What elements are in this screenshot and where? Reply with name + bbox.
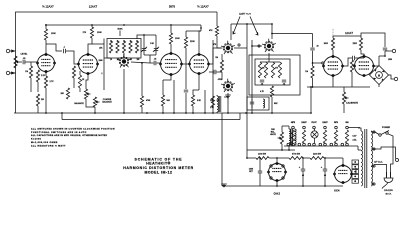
heater coil 5 bbox=[334, 130, 337, 143]
transformer taps bbox=[371, 131, 375, 185]
svg-text:117 V.A.C.: 117 V.A.C. bbox=[374, 161, 383, 164]
svg-text:1000 5W: 1000 5W bbox=[258, 154, 266, 156]
junction range top dots bbox=[110, 40, 138, 42]
label 2200 5W bbox=[313, 154, 321, 156]
wire R9 bottom stub bbox=[91, 38, 93, 40]
label 6X4 bbox=[334, 189, 340, 193]
wire top bus B+ bbox=[16, 11, 217, 13]
svg-text:40: 40 bbox=[302, 175, 304, 177]
svg-text:105-125V: 105-125V bbox=[384, 190, 393, 192]
resistor R9 100K plate V1B bbox=[83, 27, 103, 38]
wire R12 top bbox=[162, 80, 164, 95]
wire balance bottom bbox=[86, 99, 95, 107]
wire bottom bus second bbox=[62, 119, 240, 121]
label 5879 bbox=[169, 5, 176, 9]
wire bus2 end down bbox=[200, 25, 202, 31]
svg-text:6BT8: 6BT8 bbox=[291, 122, 295, 124]
resistor RR1 bbox=[109, 41, 112, 53]
rotary switch S1 frequency bbox=[117, 54, 131, 67]
junction dots supply bbox=[246, 157, 326, 187]
tube V1A bbox=[37, 53, 56, 72]
shield box outer bbox=[249, 55, 300, 95]
wire R14 to S2 bbox=[217, 36, 221, 48]
wire vertical 174 bbox=[173, 80, 175, 113]
svg-text:HEATHKIT®: HEATHKIT® bbox=[146, 162, 171, 166]
bridge rectifier D1-D4 bbox=[370, 66, 389, 85]
ground main bbox=[221, 184, 227, 187]
wire vertical 252 bbox=[251, 40, 253, 113]
label box 68K bbox=[274, 103, 278, 105]
wire S1 bottom down bbox=[123, 69, 125, 113]
label half 12AX7 second bbox=[197, 5, 209, 9]
svg-text:60 CY.: 60 CY. bbox=[386, 193, 392, 195]
wire trimmer top bus bbox=[137, 34, 156, 39]
input terminal J1 bbox=[6, 49, 15, 52]
wire OA2 top bbox=[276, 157, 278, 162]
svg-text:1M: 1M bbox=[305, 71, 308, 73]
wire V1A plate to C2 bbox=[46, 44, 62, 51]
arrow callout right bbox=[250, 17, 258, 36]
resistor R14 47K bbox=[209, 26, 219, 36]
svg-text:6X4: 6X4 bbox=[345, 121, 348, 124]
svg-text:POWER: POWER bbox=[382, 127, 391, 129]
capacitor in box bbox=[250, 99, 254, 108]
junction V1A plate node bbox=[45, 24, 47, 26]
wire T2 top bbox=[282, 126, 289, 132]
diode arrows in bridge bbox=[373, 69, 384, 81]
wire V4B out to bridge bbox=[374, 65, 380, 67]
capacitor C1 .05 bbox=[23, 58, 27, 64]
svg-text:100K: 100K bbox=[97, 32, 102, 34]
svg-text:ALL SWITCHES SHOWN IN COUNTER: ALL SWITCHES SHOWN IN COUNTER CLOCKWISE … bbox=[31, 127, 115, 130]
wire V2 cathode bbox=[163, 75, 171, 81]
label LEVEL bbox=[21, 54, 29, 56]
wire coarse balance to bus bbox=[94, 107, 96, 113]
svg-text:1M: 1M bbox=[25, 71, 28, 73]
transformer T1 primary bbox=[361, 131, 363, 186]
svg-text:2200 5W: 2200 5W bbox=[313, 154, 321, 156]
wire switch to plug bbox=[388, 134, 393, 172]
wire choke connections bbox=[216, 95, 218, 113]
svg-text:K=1000: K=1000 bbox=[31, 139, 42, 141]
heater terminals bottom row bbox=[287, 143, 348, 146]
wire S2 right to verticals bbox=[234, 47, 247, 49]
label 47K V3 bbox=[213, 44, 217, 46]
capacitor CN1 bbox=[260, 80, 264, 85]
label 22K choke bbox=[210, 100, 214, 102]
resistor R2 grid bbox=[36, 70, 45, 82]
resistor R10 plate 5879 bbox=[169, 33, 180, 44]
svg-text:MODEL IM-12: MODEL IM-12 bbox=[145, 170, 173, 174]
label 105-125V bbox=[384, 190, 393, 195]
terminal small A bbox=[238, 44, 260, 47]
wire S4 right arm bbox=[272, 33, 313, 35]
wire S3 down bbox=[227, 93, 229, 113]
capacitor C4 to 5879 grid bbox=[150, 61, 161, 65]
wire V1B cathode bbox=[86, 74, 88, 90]
svg-text:5879: 5879 bbox=[169, 5, 176, 9]
wire bus24 bbox=[231, 23, 273, 40]
resistor RN2 bbox=[264, 62, 267, 78]
svg-text:10: 10 bbox=[317, 46, 319, 48]
svg-text:12AX7: 12AX7 bbox=[345, 31, 353, 35]
capacitor C10 bbox=[258, 157, 262, 186]
wire RB1 left bbox=[247, 150, 256, 158]
wire V3 out right bbox=[209, 48, 223, 64]
resistor R21 470K bbox=[140, 62, 151, 113]
wire R10 to bus2 bbox=[170, 24, 172, 53]
wire V1B grid stub bbox=[74, 58, 79, 64]
wire RB chain bbox=[269, 157, 334, 159]
wire R3 to bottom bus bbox=[37, 106, 39, 113]
svg-text:LEVEL: LEVEL bbox=[21, 54, 29, 56]
label set box bbox=[249, 169, 254, 174]
wire V3 plate bbox=[199, 31, 201, 55]
wire V1A cathode down bbox=[45, 72, 47, 77]
wire heater bottom bus bbox=[284, 145, 358, 147]
svg-text:M=1,000,000 OHMS: M=1,000,000 OHMS bbox=[31, 142, 58, 144]
tube V4A bbox=[323, 55, 344, 76]
wire S4 to network bbox=[268, 53, 270, 62]
wire R1 bottom bbox=[30, 78, 32, 92]
wire V2 out bbox=[182, 63, 190, 65]
wire V3 cathode bbox=[198, 74, 200, 91]
wire S4 left bbox=[251, 45, 262, 47]
heater coil 3 bbox=[314, 129, 316, 143]
potentiometer BALANCE fine bbox=[84, 89, 90, 99]
wire C1 to V1A grid bbox=[25, 61, 38, 63]
svg-text:COARSE: COARSE bbox=[103, 98, 112, 101]
capacitor C11 electrolytic bbox=[299, 157, 305, 186]
wire bus2 bbox=[46, 24, 201, 26]
capacitor C7 bbox=[310, 46, 324, 65]
resistor R11 screen bbox=[184, 37, 195, 48]
wire vertical 222 long bbox=[221, 113, 223, 186]
svg-text:100K: 100K bbox=[175, 38, 180, 40]
resistor RN4 bbox=[278, 62, 281, 78]
svg-text:1500: 1500 bbox=[99, 60, 103, 62]
svg-text:12AX7: 12AX7 bbox=[89, 5, 98, 9]
resistor RR5 bbox=[135, 41, 138, 53]
title line 1 bbox=[135, 157, 183, 161]
terminal strip TS1 bbox=[352, 160, 359, 183]
wire R11 bottom bbox=[185, 48, 187, 89]
transformer T1 core bbox=[365, 129, 367, 188]
resistor R8 10K bbox=[60, 88, 69, 99]
trimmer capacitor CT2 bbox=[153, 35, 159, 55]
resistor RR2 bbox=[116, 41, 119, 53]
resistor RN3 bbox=[271, 62, 274, 78]
wire C2 to V1B bbox=[66, 51, 74, 58]
svg-text:½ 12AX7: ½ 12AX7 bbox=[42, 5, 54, 9]
rotary switch S4 bbox=[262, 39, 276, 52]
svg-text:.1: .1 bbox=[101, 73, 103, 75]
label METER BALANCE bbox=[270, 129, 276, 136]
wire V1A plate up bbox=[45, 40, 47, 55]
wire R6 down bbox=[73, 78, 75, 88]
svg-text:.01: .01 bbox=[261, 84, 264, 86]
range resistor box bbox=[107, 39, 141, 59]
label filter r1 bbox=[262, 68, 279, 70]
wire V4A cathode bbox=[332, 76, 334, 88]
resistor R7 bbox=[78, 75, 85, 88]
wire input top corner bbox=[15, 12, 18, 45]
wire heater top right bbox=[348, 127, 360, 129]
potentiometer LEVEL bbox=[14, 56, 20, 68]
heater coil 2 bbox=[302, 130, 305, 143]
wire vertical 205 bbox=[204, 90, 206, 113]
wire R2 bottom to bus bbox=[37, 82, 39, 92]
svg-text:220K: 220K bbox=[353, 43, 358, 45]
pilot lamp PL1 bbox=[311, 131, 318, 138]
wire R12 bottom bbox=[162, 106, 164, 113]
pin circles OA2 bbox=[270, 165, 284, 179]
svg-text:20: 20 bbox=[110, 59, 112, 61]
switch SW power bbox=[374, 131, 389, 137]
wire R7 top bbox=[79, 71, 81, 75]
svg-text:BAL-: BAL- bbox=[271, 131, 276, 134]
wire vertical 311 bbox=[299, 52, 301, 54]
wire second bus right corner bbox=[239, 113, 241, 120]
resistor RR4 bbox=[129, 41, 132, 53]
label BALANCE bbox=[74, 102, 84, 105]
svg-text:OA2: OA2 bbox=[274, 192, 281, 196]
output terminal right bottom bbox=[389, 75, 398, 81]
AC plug P1 bbox=[382, 172, 393, 189]
svg-text:40: 40 bbox=[324, 175, 326, 177]
arrow callout left bbox=[233, 17, 240, 35]
label freq values bbox=[110, 59, 139, 61]
wire R9 top to bus2 bbox=[91, 24, 93, 27]
svg-text:20K: 20K bbox=[137, 59, 140, 61]
wire S4 top to bus bbox=[271, 24, 273, 39]
inductor in box bbox=[263, 99, 265, 108]
label 6.3V bbox=[353, 136, 358, 142]
wire top bus corner down bbox=[216, 12, 218, 26]
heater coil 4 bbox=[323, 130, 326, 143]
wire secondary leads bbox=[358, 149, 361, 151]
capacitor C2 coupling bbox=[63, 47, 66, 54]
wire meteramp input vert bbox=[312, 34, 314, 48]
svg-text:500K: 500K bbox=[117, 29, 123, 31]
wire R19 stubs bbox=[361, 36, 364, 57]
wire S1 top area bbox=[103, 39, 105, 45]
wire R11 top bbox=[186, 31, 201, 37]
notes text block bbox=[31, 127, 115, 147]
resistor RR3 bbox=[122, 41, 125, 53]
wire S2-S3 link bbox=[221, 54, 223, 60]
title line 2 bbox=[146, 162, 171, 166]
label 117VAC bbox=[374, 161, 383, 164]
input terminal J2 bbox=[6, 71, 15, 74]
wire S1 to box bbox=[123, 53, 125, 56]
heater labels bbox=[291, 121, 349, 124]
label 1M near S2 bbox=[215, 57, 218, 59]
svg-text:100K: 100K bbox=[324, 43, 329, 45]
wire bottom rail meter amp bbox=[307, 86, 370, 88]
resistor R18 plate bbox=[324, 38, 335, 50]
svg-text:100K: 100K bbox=[51, 33, 56, 35]
svg-text:12AX7: 12AX7 bbox=[301, 121, 306, 124]
wire 6X4 cathode right bbox=[352, 168, 357, 174]
svg-text:ALL CAPACITORS ARE IN MFD UNLE: ALL CAPACITORS ARE IN MFD UNLESS, OTHERW… bbox=[31, 134, 107, 137]
wire R18 stub bbox=[332, 36, 334, 57]
label meter scale bbox=[388, 59, 392, 61]
title line 4 bbox=[145, 170, 173, 174]
heater coil 1 bbox=[291, 130, 294, 143]
rotary switch S2 bbox=[221, 41, 235, 54]
svg-text:.01: .01 bbox=[283, 84, 286, 86]
wire vertical 246 bbox=[246, 24, 248, 113]
label 500K bbox=[117, 29, 123, 37]
wire R5 to bus bbox=[45, 88, 47, 113]
svg-text:CALIBRATE: CALIBRATE bbox=[346, 102, 359, 105]
wire V4B plate out bbox=[363, 54, 365, 57]
label 1.5K choke bbox=[210, 107, 215, 109]
label OA2 bbox=[274, 192, 281, 196]
meter M1 bbox=[376, 72, 383, 79]
heater terminals top row bbox=[292, 126, 349, 129]
junction dots bus main bbox=[45, 112, 312, 114]
resistor R13 6.8K bbox=[191, 95, 201, 106]
svg-text:.05: .05 bbox=[154, 59, 157, 61]
svg-text:5879: 5879 bbox=[334, 122, 338, 124]
wire meteramp rail down bbox=[310, 86, 313, 113]
wire R13 connect bbox=[193, 90, 199, 95]
wire V2 plate up bbox=[0, 0, 1, 1]
label 12AX7 top bbox=[89, 5, 98, 9]
terminal far right bbox=[374, 147, 399, 162]
wire V4B grid resistor bbox=[350, 60, 353, 87]
potentiometer CALIBRATE bbox=[342, 87, 348, 113]
tube V6 OA2 bbox=[268, 162, 287, 181]
resistor R17 1M bbox=[305, 63, 314, 78]
capacitor C13 bbox=[209, 70, 222, 74]
wire V4A to V4B bbox=[343, 58, 353, 66]
wire OA2 bottom bbox=[276, 182, 278, 187]
svg-text:1500: 1500 bbox=[388, 59, 392, 61]
rotary switch S3 bbox=[221, 79, 235, 92]
potentiometer meter balance bbox=[278, 132, 284, 144]
tube V2 5879 bbox=[160, 52, 183, 75]
tube V1B bbox=[78, 53, 99, 74]
wire vertical 247 down bbox=[246, 113, 248, 150]
resistor R22 27K bbox=[211, 96, 220, 107]
resistor R1 1M bbox=[25, 66, 32, 78]
svg-text:½ 12AX7: ½ 12AX7 bbox=[197, 5, 209, 9]
wire V1B out to range box bbox=[92, 44, 110, 90]
wire V4A top dotted bbox=[332, 29, 334, 36]
svg-text:2.7K: 2.7K bbox=[50, 81, 55, 83]
capacitor C12 electrolytic bbox=[321, 157, 327, 186]
resistor RB3 2200 5W bbox=[310, 157, 324, 160]
wire bottom bus main bbox=[14, 112, 311, 114]
wire 6X4 top bbox=[334, 158, 343, 166]
wire R7 bottom bbox=[79, 88, 81, 92]
inductor L1 filter choke bbox=[217, 96, 221, 112]
tube V5 6X4 rectifier bbox=[334, 164, 353, 183]
wire V1B plate up bbox=[88, 40, 92, 55]
label 12AT7 callout bbox=[239, 12, 251, 16]
svg-text:2M: 2M bbox=[41, 99, 44, 101]
shield box inner bbox=[255, 59, 290, 85]
wire R4 to bus2 bbox=[45, 25, 47, 29]
wire bridge bottom bbox=[378, 85, 380, 88]
svg-text:ANCE: ANCE bbox=[270, 133, 276, 136]
svg-text:BALANCE: BALANCE bbox=[102, 101, 112, 104]
label network value bbox=[260, 91, 264, 93]
label CALIBRATE bbox=[346, 102, 359, 105]
resistor R3 cathode lower bbox=[36, 94, 44, 106]
transformer T2 interstage bbox=[289, 129, 296, 146]
capacitor C5 screen bypass bbox=[184, 90, 188, 113]
tube V4B bbox=[354, 55, 375, 76]
ground above choke bbox=[224, 95, 231, 98]
wire level wiper to cap bbox=[20, 61, 22, 63]
svg-text:12AX7: 12AX7 bbox=[322, 121, 327, 124]
capacitor C8 interstage bbox=[353, 56, 364, 60]
potentiometer COARSE BALANCE bbox=[93, 97, 99, 107]
capacitor CN2 bbox=[282, 80, 286, 85]
resistor R12 560 bbox=[161, 95, 170, 106]
wire bridge top feed bbox=[361, 33, 385, 44]
heater coil 6 bbox=[345, 130, 348, 143]
resistor R6 grid V1B bbox=[72, 66, 75, 78]
resistor RB2 4700 5W bbox=[289, 157, 303, 160]
resistor RB1 1000 5W bbox=[256, 157, 269, 160]
title line 3 bbox=[123, 166, 193, 170]
junction dots bus2 bbox=[45, 24, 125, 26]
wire R18 top bus bbox=[333, 35, 361, 37]
svg-text:3-30: 3-30 bbox=[150, 43, 154, 45]
label 470K near S3 bbox=[218, 79, 223, 81]
wire T2 bottom bbox=[247, 144, 295, 151]
wire J2 stub bbox=[10, 72, 16, 74]
svg-text:FUNCTIONAL SWITCHES ARE IN AUT: FUNCTIONAL SWITCHES ARE IN AUTO bbox=[31, 131, 87, 134]
trimmer capacitor CT1 bbox=[141, 35, 147, 55]
wire R1 top bbox=[30, 62, 32, 66]
wire left vertical from input bbox=[15, 45, 17, 113]
svg-text:2.2K: 2.2K bbox=[41, 75, 46, 77]
label half 12AX7 top bbox=[42, 5, 54, 9]
transformer T1 secondary bbox=[371, 131, 373, 186]
resistor R5 cathode bbox=[44, 76, 54, 88]
label 12AX7 right bbox=[345, 31, 353, 35]
svg-text:4700 5W: 4700 5W bbox=[292, 154, 300, 156]
label .05 near C4 bbox=[154, 59, 157, 61]
wire bridge top node bbox=[379, 55, 386, 65]
svg-text:M: M bbox=[378, 73, 380, 77]
resistor R15 between S2 S3 bbox=[220, 60, 223, 80]
wire heater bus to transformer bbox=[357, 146, 359, 150]
resistor RN1 bbox=[258, 62, 261, 78]
wire trimmers bottom bbox=[144, 55, 156, 63]
label 1000 5W bbox=[258, 154, 266, 156]
wire R13 bottom bbox=[192, 106, 194, 113]
output terminal right top bbox=[385, 49, 396, 52]
tube V3 half 12AX7 bbox=[189, 53, 210, 74]
capacitor C9 output bbox=[383, 44, 387, 56]
wire network top bbox=[260, 61, 280, 63]
wire S1 to C4 bbox=[131, 62, 150, 63]
wire plug left lead bbox=[374, 165, 387, 173]
wire bottom supply bus bbox=[224, 185, 343, 187]
svg-text:6X4: 6X4 bbox=[334, 189, 340, 193]
label cap trimmer bbox=[150, 43, 154, 45]
wire second bus left corner bbox=[61, 113, 63, 120]
wire R17 bottom bbox=[312, 78, 314, 87]
meter rectifier box bbox=[247, 97, 269, 110]
